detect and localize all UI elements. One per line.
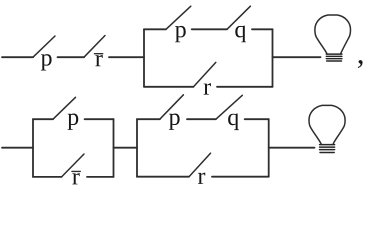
node: top block left vertical [143, 29, 145, 87]
wire into top parallel block [109, 56, 144, 58]
lamp L1 bulb globe [315, 15, 351, 54]
node: block B right vertical [268, 119, 270, 177]
lamp L1 screw base [326, 54, 342, 61]
label p [41, 54, 52, 70]
label q [235, 26, 246, 43]
label r (negated) [72, 173, 79, 184]
label r [198, 173, 205, 184]
label r (negated) [95, 55, 102, 66]
wire top branch segment 1 [144, 28, 166, 30]
switch r-bar (top row second contact) [84, 36, 105, 58]
wire bottom branch segment 2 [217, 86, 273, 88]
wire block A lower branch segment 2 [87, 176, 114, 178]
switch q (block B upper branch) [216, 95, 242, 119]
wire block A upper branch segment 2 [85, 118, 114, 120]
wire top branch segment 2 [192, 28, 227, 30]
wire block A lower branch segment 1 [33, 176, 62, 178]
wire block A upper branch segment 1 [33, 118, 53, 120]
switch r-bar (block A lower branch) [62, 154, 84, 177]
label r [204, 83, 211, 94]
wire block B upper branch segment 2 [187, 118, 216, 120]
label p [68, 113, 79, 129]
comma separator [358, 60, 363, 68]
wire block B lower branch segment 2 [212, 176, 269, 178]
lamp L2 bulb globe [309, 105, 345, 143]
switch p (block B upper branch) [160, 95, 184, 119]
wire bottom rail left segment [2, 147, 33, 149]
wire between block A and block B [114, 147, 138, 149]
switch r (block B lower branch) [189, 153, 211, 177]
wire from top block to lamp [273, 56, 321, 58]
wire from block B to lamp [269, 147, 315, 149]
switch r (top block lower branch) [194, 62, 216, 86]
wire block B lower branch segment 1 [137, 176, 189, 178]
label q [228, 113, 239, 130]
wire top rail left segment [2, 56, 33, 58]
node: block A left vertical [32, 119, 34, 177]
wire block B upper branch segment 3 [245, 118, 269, 120]
lamp L2 screw base [320, 145, 335, 153]
label p [175, 26, 186, 42]
label r overline [72, 170, 80, 172]
wire bottom branch segment 1 [144, 86, 194, 88]
node: top block right vertical [272, 29, 274, 87]
label p [169, 113, 180, 129]
wire block B upper branch segment 1 [137, 118, 160, 120]
switch p (block A upper branch) [53, 97, 76, 119]
node: block B left vertical [136, 119, 138, 177]
switch p (top block upper branch) [166, 6, 191, 29]
node: block A right vertical [113, 119, 115, 177]
wire between switch p and switch r-bar [58, 56, 85, 58]
switch q (top block upper branch) [227, 6, 250, 29]
wire top branch segment 3 [252, 28, 273, 30]
switch p (top row first contact) [33, 36, 55, 57]
label r overline [95, 53, 103, 55]
